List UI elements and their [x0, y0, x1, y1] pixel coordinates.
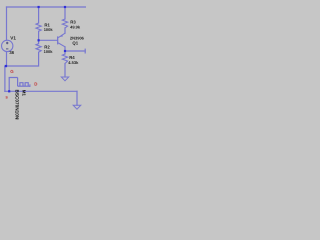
- transistor Q1 bar: [57, 36, 59, 44]
- wire R3 branch top: [64, 7, 66, 19]
- svg-text:Q1: Q1: [72, 41, 78, 46]
- transistor Q1 emitter diagonal: [58, 33, 65, 38]
- voltage source V1 circle: [2, 40, 13, 51]
- svg-text:M1: M1: [22, 90, 27, 97]
- junction collector node: [64, 50, 66, 52]
- wire R3 to emitter: [64, 28, 66, 33]
- transistor Q1 collector diagonal: [58, 43, 65, 47]
- wire gate column: [4, 67, 6, 92]
- MOSFET M1 channel bump 1: [20, 83, 23, 87]
- junction source node: [8, 90, 10, 92]
- MOSFET M1 channel wire: [18, 85, 30, 87]
- wire collector node to right pin: [65, 50, 85, 52]
- junction top R1: [38, 6, 40, 8]
- resistor R2: [36, 44, 41, 53]
- V1 plus: [6, 42, 8, 44]
- resistor R3: [62, 19, 67, 28]
- MOSFET M1 gate bar drop: [17, 78, 19, 87]
- svg-text:BSC070N10NS3: BSC070N10NS3: [15, 90, 20, 121]
- svg-text:4.53k: 4.53k: [68, 60, 79, 65]
- MOSFET M1 gate lead corner: [9, 78, 17, 92]
- MOSFET M1 channel bump 2: [25, 83, 28, 87]
- resistor R4: [62, 54, 67, 64]
- wire top rail: [7, 6, 87, 8]
- resistor R1: [36, 23, 41, 31]
- wire collector to node: [64, 47, 66, 51]
- wire R1 to base node: [38, 31, 40, 40]
- svg-text:D: D: [34, 82, 37, 87]
- pin tick right: [84, 49, 86, 53]
- svg-text:100k: 100k: [44, 49, 54, 54]
- Q1 emitter arrow: [60, 34, 63, 37]
- svg-text:V1: V1: [10, 35, 16, 40]
- wire bottom rail: [5, 90, 77, 92]
- svg-text:49.9k: 49.9k: [70, 24, 81, 29]
- svg-text:100k: 100k: [44, 27, 54, 32]
- wire ground1 stem: [76, 91, 78, 105]
- V1 minus: [6, 48, 8, 50]
- wire left column upper: [6, 7, 8, 40]
- ground 2 (under R4): [61, 77, 68, 81]
- MOSFET M1 drain pin tick: [29, 84, 31, 87]
- wire R4 top lead: [64, 51, 66, 54]
- wire left column lower: [6, 52, 8, 66]
- wire R2 top lead: [38, 40, 40, 43]
- wire base node to Q1: [39, 39, 58, 41]
- junction top R3: [64, 6, 66, 8]
- svg-text:G: G: [10, 69, 14, 74]
- wire R4 to ground: [64, 64, 66, 78]
- wire V- to R2 bottom: [7, 52, 39, 66]
- svg-text:36: 36: [9, 50, 14, 55]
- junction V- node: [5, 65, 7, 67]
- junction base node: [38, 39, 40, 41]
- background: [0, 0, 86, 120]
- ground 1 (bottom right): [73, 105, 81, 109]
- wire R1 branch top: [38, 7, 40, 23]
